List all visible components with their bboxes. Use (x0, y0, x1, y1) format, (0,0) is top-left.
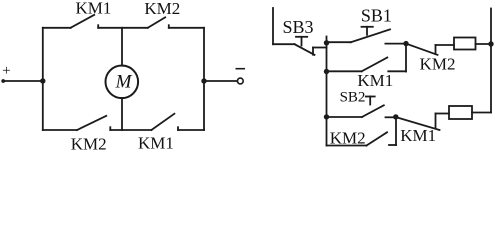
svg-text:SB1: SB1 (361, 6, 392, 26)
svg-text:KM1: KM1 (138, 134, 174, 153)
svg-text:KM1: KM1 (75, 0, 111, 18)
svg-text:SB3: SB3 (282, 17, 313, 37)
svg-text:KM1: KM1 (357, 71, 393, 90)
svg-text:+: + (2, 63, 10, 79)
svg-text:KM2: KM2 (144, 0, 180, 18)
svg-text:KM1: KM1 (400, 126, 436, 145)
svg-text:KM2: KM2 (71, 134, 107, 152)
svg-text:SB2: SB2 (340, 89, 366, 105)
svg-text:KM2: KM2 (420, 55, 456, 74)
svg-text:M: M (115, 72, 133, 93)
svg-text:KM2: KM2 (330, 129, 366, 148)
